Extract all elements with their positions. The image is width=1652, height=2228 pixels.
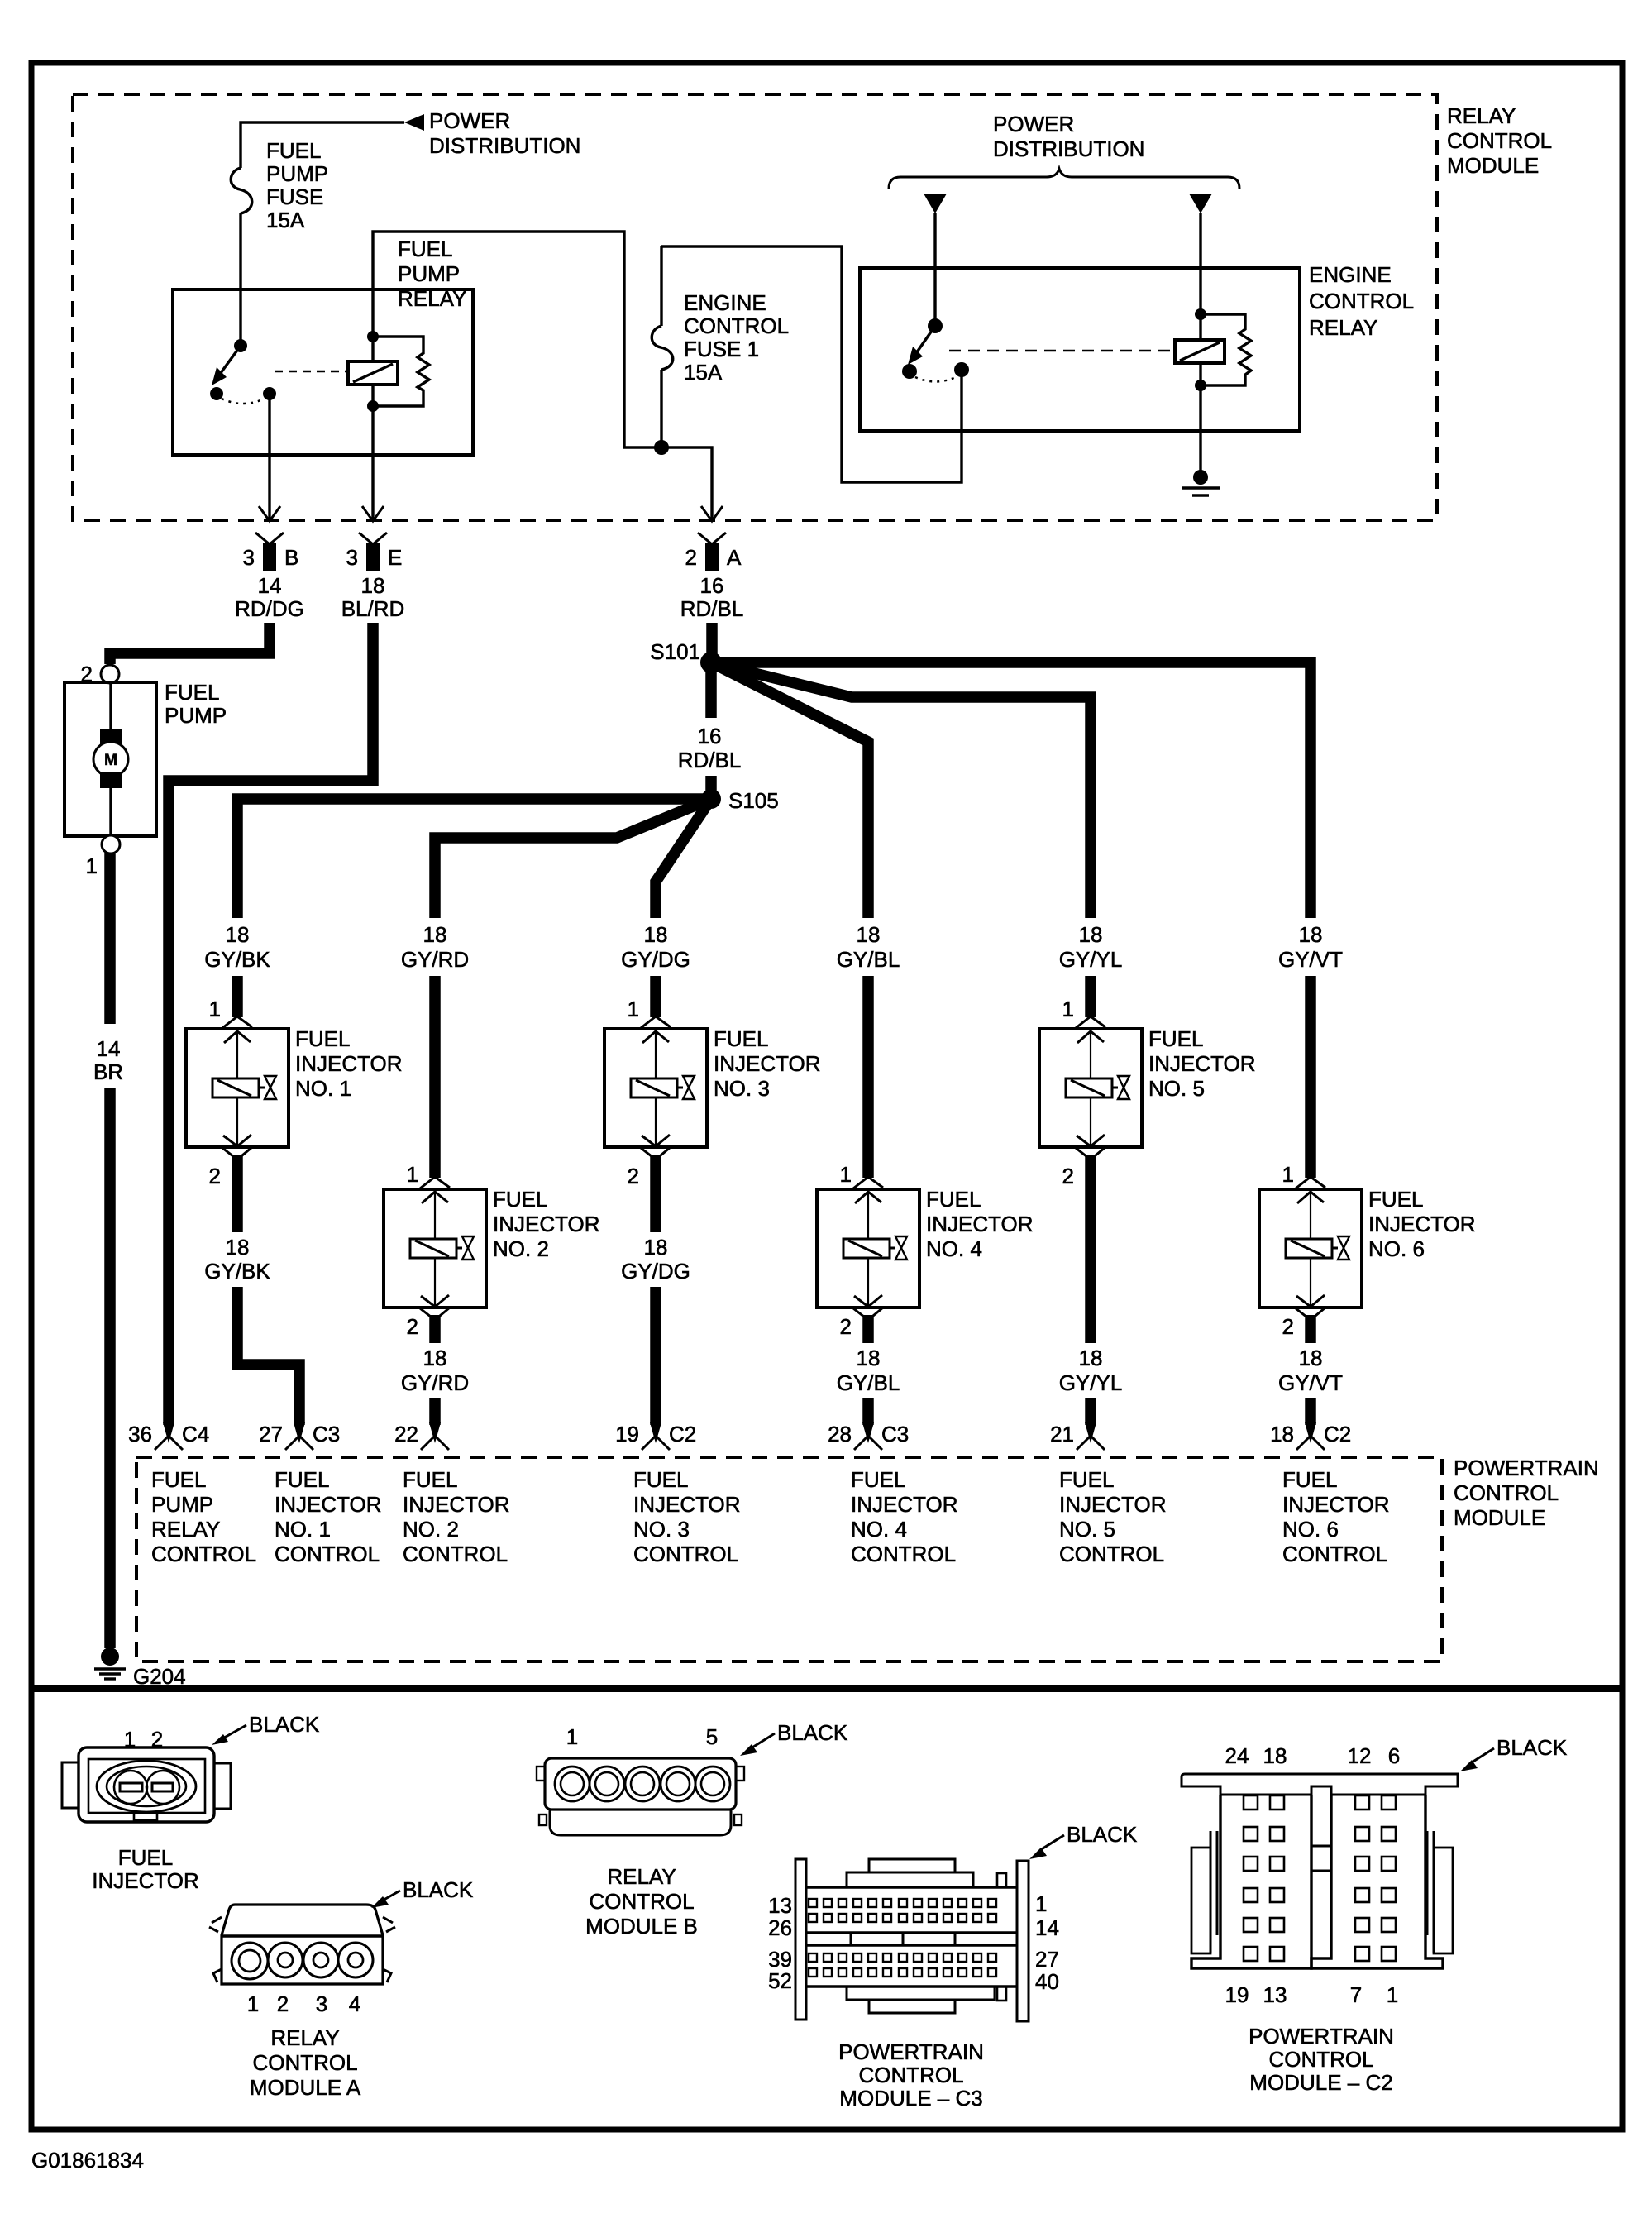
svg-text:GY/BK: GY/BK bbox=[204, 1259, 270, 1284]
svg-text:1: 1 bbox=[1282, 1162, 1294, 1187]
wire from injector 3 pin 2 bbox=[650, 1155, 661, 1232]
splice S105 bbox=[701, 789, 721, 809]
svg-text:18: 18 bbox=[226, 922, 250, 947]
fuel pump box bbox=[64, 682, 156, 836]
svg-text:MODULE B: MODULE B bbox=[585, 1914, 698, 1939]
svg-text:18: 18 bbox=[1299, 922, 1323, 947]
svg-text:GY/BK: GY/BK bbox=[204, 947, 270, 972]
svg-text:18: 18 bbox=[226, 1235, 250, 1260]
svg-text:FUSE: FUSE bbox=[266, 184, 323, 209]
svg-text:19: 19 bbox=[1225, 1982, 1249, 2007]
svg-text:21: 21 bbox=[1050, 1422, 1074, 1446]
svg-text:G204: G204 bbox=[133, 1664, 186, 1689]
svg-text:INJECTOR: INJECTOR bbox=[633, 1492, 741, 1517]
wire down to injector no. 5 pin 1 bbox=[1085, 976, 1096, 1017]
svg-text:GY/VT: GY/VT bbox=[1278, 947, 1343, 972]
svg-text:NO. 1: NO. 1 bbox=[295, 1076, 351, 1101]
svg-text:3: 3 bbox=[243, 545, 255, 570]
svg-text:ENGINE: ENGINE bbox=[1309, 262, 1392, 287]
wire from fuel pump relay coil top to engine control fuse junction bbox=[373, 232, 712, 520]
injector no. 6 internal symbol bbox=[1310, 1189, 1311, 1239]
PCM connector X (21 ) bbox=[1085, 1422, 1096, 1443]
svg-text:MODULE – C3: MODULE – C3 bbox=[839, 2086, 982, 2111]
injector no. 3 internal symbol bbox=[655, 1029, 657, 1078]
svg-text:DISTRIBUTION: DISTRIBUTION bbox=[993, 136, 1144, 161]
svg-text:RELAY: RELAY bbox=[398, 286, 466, 311]
svg-text:INJECTOR: INJECTOR bbox=[851, 1492, 958, 1517]
svg-text:C4: C4 bbox=[182, 1422, 209, 1446]
svg-text:INJECTOR: INJECTOR bbox=[714, 1051, 821, 1076]
svg-text:CONTROL: CONTROL bbox=[684, 313, 789, 338]
fuel pump fuse 15A bbox=[231, 168, 252, 213]
power feed triangle right bbox=[1189, 194, 1212, 213]
wire down to injector no. 2 pin 1 bbox=[429, 976, 441, 1178]
wire from engine control relay switch to engine control fuse bbox=[661, 246, 962, 482]
svg-text:CONTROL: CONTROL bbox=[252, 2050, 357, 2075]
engine control relay parallel resistor bbox=[1201, 314, 1251, 385]
thick wire BL/RD from connector E to PCM C4 (fuel pump relay control) bbox=[169, 623, 373, 1425]
svg-text:CONTROL: CONTROL bbox=[1447, 128, 1552, 153]
svg-text:BLACK: BLACK bbox=[777, 1720, 848, 1745]
PCM C3 pin cavities bbox=[809, 1899, 817, 1907]
svg-text:MODULE A: MODULE A bbox=[250, 2075, 361, 2100]
wire from left triangle to relay switch pivot bbox=[933, 213, 936, 326]
pin 2 of injector no. 5 bbox=[1076, 1147, 1105, 1159]
svg-text:M: M bbox=[104, 752, 117, 769]
svg-text:1: 1 bbox=[1387, 1982, 1398, 2007]
open arrowhead at RCM boundary (A) bbox=[701, 506, 723, 521]
svg-text:FUEL: FUEL bbox=[403, 1467, 457, 1492]
PCM C3 top blocks bbox=[847, 1872, 973, 1887]
svg-text:FUEL: FUEL bbox=[633, 1467, 688, 1492]
svg-text:CONTROL: CONTROL bbox=[151, 1542, 256, 1566]
svg-text:INJECTOR: INJECTOR bbox=[92, 1868, 199, 1893]
pin 2 of injector no. 4 bbox=[853, 1308, 883, 1320]
svg-text:NO. 6: NO. 6 bbox=[1368, 1236, 1425, 1261]
PCM C3 bottom blocks bbox=[847, 1987, 995, 2000]
svg-text:13: 13 bbox=[768, 1893, 792, 1918]
svg-text:S101: S101 bbox=[650, 639, 700, 664]
svg-text:26: 26 bbox=[768, 1915, 792, 1940]
module A pin cavities bbox=[232, 1943, 268, 1979]
svg-text:18: 18 bbox=[423, 1346, 447, 1370]
svg-text:CONTROL: CONTROL bbox=[589, 1889, 694, 1914]
svg-text:CONTROL: CONTROL bbox=[1282, 1542, 1387, 1566]
divider line between schematic and connector views bbox=[31, 1685, 1622, 1692]
svg-text:FUEL: FUEL bbox=[1368, 1187, 1423, 1212]
injector no. 5 internal symbol bbox=[1090, 1029, 1091, 1078]
svg-text:NO. 5: NO. 5 bbox=[1059, 1517, 1115, 1542]
svg-text:POWERTRAIN: POWERTRAIN bbox=[838, 2039, 984, 2064]
svg-text:BLACK: BLACK bbox=[1067, 1822, 1138, 1847]
svg-text:28: 28 bbox=[828, 1422, 852, 1446]
svg-text:INJECTOR: INJECTOR bbox=[295, 1051, 403, 1076]
svg-text:2: 2 bbox=[840, 1314, 852, 1339]
fuel injector no. 5 box bbox=[1039, 1029, 1142, 1147]
thick wire RD/BL from connector A to S101 bbox=[706, 623, 718, 662]
svg-text:NO. 3: NO. 3 bbox=[633, 1517, 690, 1542]
wire from coil bottom to ground bbox=[1199, 385, 1201, 477]
engine control relay coil bbox=[1175, 340, 1225, 363]
fuel pump terminal 2 bbox=[101, 665, 119, 683]
svg-text:RD/DG: RD/DG bbox=[235, 596, 304, 621]
svg-text:5: 5 bbox=[706, 1724, 718, 1749]
open arrowhead at RCM boundary (E) bbox=[362, 506, 384, 521]
fuel injector connector pin 2 cavity bbox=[146, 1771, 179, 1804]
svg-text:DISTRIBUTION: DISTRIBUTION bbox=[429, 133, 580, 158]
relay control module A connector body bbox=[222, 1905, 383, 1984]
ground G204 bbox=[101, 1647, 119, 1666]
svg-text:1: 1 bbox=[1035, 1891, 1047, 1916]
svg-text:18: 18 bbox=[1270, 1422, 1294, 1446]
svg-text:CONTROL: CONTROL bbox=[1454, 1480, 1559, 1505]
pin 1 of injector no. 2 bbox=[420, 1177, 450, 1188]
svg-text:15A: 15A bbox=[684, 360, 723, 385]
svg-text:FUEL: FUEL bbox=[714, 1026, 768, 1051]
engine control relay contact NO bbox=[954, 362, 969, 377]
PCM C3 body top edge bbox=[806, 1886, 1017, 1888]
wire feed to fuel injector no. 6 from splice bbox=[711, 662, 1311, 918]
PCM connector X (19 C2) bbox=[650, 1422, 661, 1443]
relay control module dashed box bbox=[73, 94, 1437, 520]
svg-text:S105: S105 bbox=[728, 788, 779, 813]
svg-text:RELAY: RELAY bbox=[1309, 315, 1377, 340]
svg-text:36: 36 bbox=[128, 1422, 152, 1446]
svg-text:MODULE – C2: MODULE – C2 bbox=[1249, 2070, 1392, 2095]
svg-text:C3: C3 bbox=[881, 1422, 909, 1446]
svg-text:1: 1 bbox=[86, 853, 98, 878]
svg-text:BLACK: BLACK bbox=[1497, 1735, 1568, 1760]
svg-text:19: 19 bbox=[615, 1422, 639, 1446]
svg-text:FUEL: FUEL bbox=[151, 1467, 206, 1492]
PCM C2 right half body bbox=[1311, 1795, 1443, 1968]
svg-text:MODULE: MODULE bbox=[1447, 153, 1539, 178]
node: power distribution (fuel pump fuse feed) arrow bbox=[404, 114, 424, 131]
dotted throw arc between contacts bbox=[222, 399, 265, 404]
relay actuation dashed link bbox=[949, 350, 1172, 352]
svg-text:1: 1 bbox=[407, 1162, 418, 1187]
injector no. 4 internal symbol bbox=[867, 1189, 869, 1239]
svg-text:18: 18 bbox=[1263, 1743, 1287, 1768]
fuel injector connector pin 1 cavity bbox=[114, 1771, 147, 1804]
svg-text:FUEL: FUEL bbox=[1282, 1467, 1337, 1492]
engine control fuse 1 15A bbox=[660, 246, 662, 326]
svg-text:NO. 4: NO. 4 bbox=[926, 1236, 982, 1261]
svg-text:4: 4 bbox=[349, 1991, 360, 2016]
fuel pump relay coil bbox=[348, 361, 398, 385]
wire from coil bottom to connector E arrow bbox=[371, 406, 374, 455]
svg-text:C3: C3 bbox=[313, 1422, 340, 1446]
fuel pump relay parallel resistor bbox=[373, 337, 429, 406]
PCM connector X (18 C2) bbox=[1305, 1422, 1316, 1443]
svg-text:POWER: POWER bbox=[993, 112, 1074, 136]
PCM C2 left half body bbox=[1191, 1795, 1311, 1968]
PCM C2 top lip bbox=[1182, 1774, 1458, 1795]
thick wire RD/DG from connector B to fuel pump terminal 2 bbox=[110, 623, 270, 664]
svg-text:CONTROL: CONTROL bbox=[1268, 2047, 1373, 2072]
svg-text:18: 18 bbox=[423, 922, 447, 947]
PCM C2 left bracket bbox=[1191, 1848, 1210, 1953]
svg-text:NO. 3: NO. 3 bbox=[714, 1076, 770, 1101]
wire from fuse into fuel pump relay bbox=[239, 213, 241, 346]
svg-text:CONTROL: CONTROL bbox=[1059, 1542, 1164, 1566]
svg-text:BL/RD: BL/RD bbox=[341, 596, 405, 621]
fuel pump relay switch contact NC bbox=[210, 387, 223, 400]
connector B at RCM boundary bbox=[255, 533, 284, 544]
svg-text:14: 14 bbox=[1035, 1915, 1059, 1940]
svg-text:18: 18 bbox=[1079, 1346, 1103, 1370]
wire from injector 1 pin 2 bbox=[232, 1155, 243, 1232]
PCM connector X (27 C3) bbox=[294, 1422, 305, 1443]
wire feed to fuel injector no. 2 from splice bbox=[435, 799, 711, 918]
power feed triangle left bbox=[924, 194, 947, 213]
svg-text:3: 3 bbox=[346, 545, 358, 570]
fuel injector connector bottom notch bbox=[134, 1813, 157, 1820]
svg-text:16: 16 bbox=[700, 573, 724, 598]
svg-text:6: 6 bbox=[1388, 1743, 1400, 1768]
engine control relay switch pivot bbox=[928, 318, 943, 333]
wire to PCM bbox=[650, 1287, 661, 1425]
svg-text:CONTROL: CONTROL bbox=[633, 1542, 738, 1566]
wire to PCM bbox=[1085, 1398, 1096, 1425]
brace under power distribution bbox=[889, 169, 1239, 189]
PCM connector X (22 ) bbox=[429, 1422, 441, 1443]
open arrowhead at RCM boundary (B) bbox=[259, 506, 280, 521]
pin 2 of injector no. 2 bbox=[420, 1308, 450, 1320]
wire down to injector no. 3 pin 1 bbox=[650, 976, 661, 1017]
svg-text:A: A bbox=[727, 545, 742, 570]
svg-text:1: 1 bbox=[628, 997, 639, 1021]
svg-text:G01861834: G01861834 bbox=[31, 2148, 144, 2173]
wire to PCM bbox=[862, 1398, 874, 1425]
svg-text:INJECTOR: INJECTOR bbox=[1148, 1051, 1256, 1076]
svg-text:RD/BL: RD/BL bbox=[680, 596, 744, 621]
svg-text:GY/VT: GY/VT bbox=[1278, 1370, 1343, 1395]
svg-text:13: 13 bbox=[1263, 1982, 1287, 2007]
svg-text:FUEL: FUEL bbox=[266, 138, 321, 163]
pin 1 of injector no. 4 bbox=[853, 1177, 883, 1188]
svg-text:PUMP: PUMP bbox=[398, 261, 460, 286]
svg-text:INJECTOR: INJECTOR bbox=[1368, 1212, 1476, 1236]
injector no. 1 internal symbol bbox=[236, 1029, 238, 1078]
relay actuation dashed link bbox=[275, 371, 346, 373]
fuel pump relay box bbox=[173, 289, 473, 455]
svg-text:18: 18 bbox=[857, 922, 881, 947]
fuel injector no. 6 box bbox=[1259, 1189, 1362, 1308]
svg-text:2: 2 bbox=[628, 1164, 639, 1188]
pin 2 of injector no. 3 bbox=[641, 1147, 671, 1159]
svg-text:52: 52 bbox=[768, 1968, 792, 1993]
svg-text:2: 2 bbox=[277, 1991, 289, 2016]
svg-text:15A: 15A bbox=[266, 208, 305, 232]
svg-text:14: 14 bbox=[97, 1036, 121, 1061]
svg-text:1: 1 bbox=[840, 1162, 852, 1187]
PCM C3 middle separator band bbox=[806, 1931, 1017, 1934]
svg-text:NO. 5: NO. 5 bbox=[1148, 1076, 1205, 1101]
pin 2 of injector no. 6 bbox=[1296, 1308, 1325, 1320]
svg-text:POWERTRAIN: POWERTRAIN bbox=[1249, 2024, 1394, 2049]
ground symbol (engine control relay) bbox=[1193, 470, 1208, 485]
svg-text:FUSE 1: FUSE 1 bbox=[684, 337, 759, 361]
wire down to injector no. 4 pin 1 bbox=[862, 976, 874, 1178]
svg-text:NO. 2: NO. 2 bbox=[403, 1517, 459, 1542]
svg-text:C2: C2 bbox=[1324, 1422, 1351, 1446]
fuel pump motor M bbox=[109, 683, 112, 742]
svg-text:INJECTOR: INJECTOR bbox=[1282, 1492, 1390, 1517]
wire from injector 4 pin 2 bbox=[862, 1315, 874, 1343]
wire feed to fuel injector no. 1 from splice bbox=[237, 799, 711, 918]
fuel injector connector body bbox=[79, 1747, 214, 1822]
svg-text:FUEL: FUEL bbox=[926, 1187, 981, 1212]
connector A at RCM boundary bbox=[698, 533, 726, 544]
module B pin cavities bbox=[555, 1767, 590, 1801]
fuel pump terminal 1 bbox=[102, 835, 120, 853]
module B side tabs bbox=[537, 1767, 545, 1781]
svg-text:27: 27 bbox=[1035, 1947, 1059, 1972]
pin 1 of injector no. 1 bbox=[222, 1016, 252, 1028]
svg-text:MODULE: MODULE bbox=[1454, 1505, 1545, 1530]
wire from switch NO contact to connector B arrow bbox=[268, 394, 270, 455]
wire from injector 2 pin 2 bbox=[429, 1315, 441, 1343]
svg-text:INJECTOR: INJECTOR bbox=[275, 1492, 382, 1517]
junction node S (fuse output) bbox=[654, 440, 669, 455]
powertrain control module dashed box bbox=[136, 1457, 1442, 1661]
svg-text:7: 7 bbox=[1350, 1982, 1362, 2007]
fuel injector no. 2 box bbox=[384, 1189, 486, 1308]
svg-text:FUEL: FUEL bbox=[398, 237, 452, 261]
module B lower skirt bbox=[550, 1810, 731, 1835]
PCM C2 center channel ticks bbox=[1311, 1845, 1331, 1848]
svg-text:GY/RD: GY/RD bbox=[401, 947, 469, 972]
svg-text:NO. 2: NO. 2 bbox=[493, 1236, 549, 1261]
svg-text:24: 24 bbox=[1225, 1743, 1249, 1768]
svg-text:RELAY: RELAY bbox=[607, 1864, 676, 1889]
svg-text:RD/BL: RD/BL bbox=[678, 748, 742, 772]
svg-text:NO. 4: NO. 4 bbox=[851, 1517, 907, 1542]
svg-text:BR: BR bbox=[93, 1059, 123, 1084]
svg-text:14: 14 bbox=[258, 573, 282, 598]
svg-text:FUEL: FUEL bbox=[851, 1467, 905, 1492]
svg-text:18: 18 bbox=[644, 1235, 668, 1260]
svg-text:18: 18 bbox=[857, 1346, 881, 1370]
svg-text:NO. 1: NO. 1 bbox=[275, 1517, 331, 1542]
svg-text:1: 1 bbox=[209, 997, 221, 1021]
coil top node bbox=[367, 331, 379, 342]
PCM C2 right bracket bbox=[1434, 1848, 1453, 1953]
pin 1 of injector no. 5 bbox=[1076, 1016, 1105, 1028]
svg-text:22: 22 bbox=[394, 1422, 418, 1446]
svg-text:2: 2 bbox=[1062, 1164, 1074, 1188]
svg-text:2: 2 bbox=[1282, 1314, 1294, 1339]
engine control relay switch arm with arrowhead bbox=[914, 326, 935, 356]
svg-text:GY/DG: GY/DG bbox=[621, 947, 690, 972]
svg-text:CONTROL: CONTROL bbox=[851, 1542, 956, 1566]
svg-text:FUEL: FUEL bbox=[118, 1845, 173, 1870]
engine control relay box bbox=[860, 268, 1300, 431]
svg-text:INJECTOR: INJECTOR bbox=[926, 1212, 1034, 1236]
svg-text:16: 16 bbox=[698, 724, 722, 748]
coil bottom node bbox=[1195, 380, 1206, 391]
svg-text:PUMP: PUMP bbox=[151, 1492, 213, 1517]
svg-text:INJECTOR: INJECTOR bbox=[1059, 1492, 1167, 1517]
PCM C2 pin cavities bbox=[1244, 1795, 1258, 1810]
svg-text:E: E bbox=[388, 545, 402, 570]
splice S101 bbox=[700, 652, 722, 673]
svg-text:CONTROL: CONTROL bbox=[275, 1542, 380, 1566]
svg-text:FUEL: FUEL bbox=[1148, 1026, 1203, 1051]
pin 1 of injector no. 6 bbox=[1296, 1177, 1325, 1188]
pin 2 of injector no. 1 bbox=[222, 1147, 252, 1159]
svg-text:RELAY: RELAY bbox=[270, 2025, 339, 2050]
connector E at RCM boundary bbox=[359, 533, 387, 544]
svg-text:POWER: POWER bbox=[429, 108, 510, 133]
svg-text:BLACK: BLACK bbox=[403, 1877, 474, 1902]
thick wire BR from fuel pump to ground bbox=[104, 853, 116, 1024]
svg-text:CONTROL: CONTROL bbox=[1309, 289, 1414, 313]
svg-text:GY/YL: GY/YL bbox=[1059, 947, 1123, 972]
injector no. 2 internal symbol bbox=[434, 1189, 436, 1239]
fuel pump relay switch arm with arrowhead bbox=[218, 346, 241, 376]
svg-text:12: 12 bbox=[1348, 1743, 1372, 1768]
svg-text:1: 1 bbox=[247, 1991, 259, 2016]
relay control module B connector body bbox=[545, 1758, 736, 1810]
svg-text:2: 2 bbox=[685, 545, 697, 570]
module A side tabs bbox=[212, 1917, 222, 1923]
wire feed to fuel injector no. 5 from splice bbox=[711, 662, 1091, 918]
svg-text:FUEL: FUEL bbox=[275, 1467, 329, 1492]
svg-text:RELAY: RELAY bbox=[151, 1517, 220, 1542]
svg-text:FUEL: FUEL bbox=[165, 680, 219, 705]
fuel injector no. 1 box bbox=[186, 1029, 289, 1147]
svg-text:POWERTRAIN: POWERTRAIN bbox=[1454, 1456, 1599, 1480]
svg-text:B: B bbox=[284, 545, 298, 570]
svg-text:40: 40 bbox=[1035, 1969, 1059, 1994]
fuel injector no. 3 box bbox=[604, 1029, 707, 1147]
module A bottom feet bbox=[213, 1969, 222, 1982]
svg-text:1: 1 bbox=[1062, 997, 1074, 1021]
PCM C3 body bottom edge bbox=[806, 1985, 1017, 1987]
fuel pump relay switch pivot bbox=[234, 339, 247, 352]
wire jog from injector 1 to PCM pin 27 bbox=[237, 1287, 299, 1425]
svg-text:FUEL: FUEL bbox=[493, 1187, 547, 1212]
wire to PCM bbox=[1305, 1398, 1316, 1425]
pin 1 of injector no. 3 bbox=[641, 1016, 671, 1028]
thick wire RD/BL from S101 to S105 bbox=[705, 669, 717, 718]
coil top node bbox=[1195, 308, 1206, 320]
fuel pump relay switch contact NO bbox=[263, 387, 276, 400]
dotted throw arc bbox=[915, 377, 956, 382]
svg-text:PUMP: PUMP bbox=[165, 703, 227, 728]
wire from power distribution to fuel pump fuse bbox=[241, 122, 404, 168]
svg-text:GY/YL: GY/YL bbox=[1059, 1370, 1123, 1395]
svg-text:BLACK: BLACK bbox=[249, 1712, 320, 1737]
svg-text:18: 18 bbox=[1299, 1346, 1323, 1370]
svg-text:INJECTOR: INJECTOR bbox=[493, 1212, 600, 1236]
PCM connector X (36 C4) bbox=[163, 1422, 174, 1443]
svg-text:18: 18 bbox=[1079, 922, 1103, 947]
svg-text:1: 1 bbox=[566, 1724, 578, 1749]
svg-text:INJECTOR: INJECTOR bbox=[403, 1492, 510, 1517]
fuel injector no. 4 box bbox=[817, 1189, 919, 1308]
svg-text:3: 3 bbox=[316, 1991, 327, 2016]
svg-text:CONTROL: CONTROL bbox=[403, 1542, 508, 1566]
wire to PCM bbox=[429, 1398, 441, 1425]
svg-text:2: 2 bbox=[407, 1314, 418, 1339]
wire feed to fuel injector no. 4 from splice bbox=[711, 662, 868, 918]
wire from injector 6 pin 2 bbox=[1305, 1315, 1316, 1343]
svg-text:GY/DG: GY/DG bbox=[621, 1259, 690, 1284]
svg-text:GY/BL: GY/BL bbox=[837, 1370, 900, 1395]
